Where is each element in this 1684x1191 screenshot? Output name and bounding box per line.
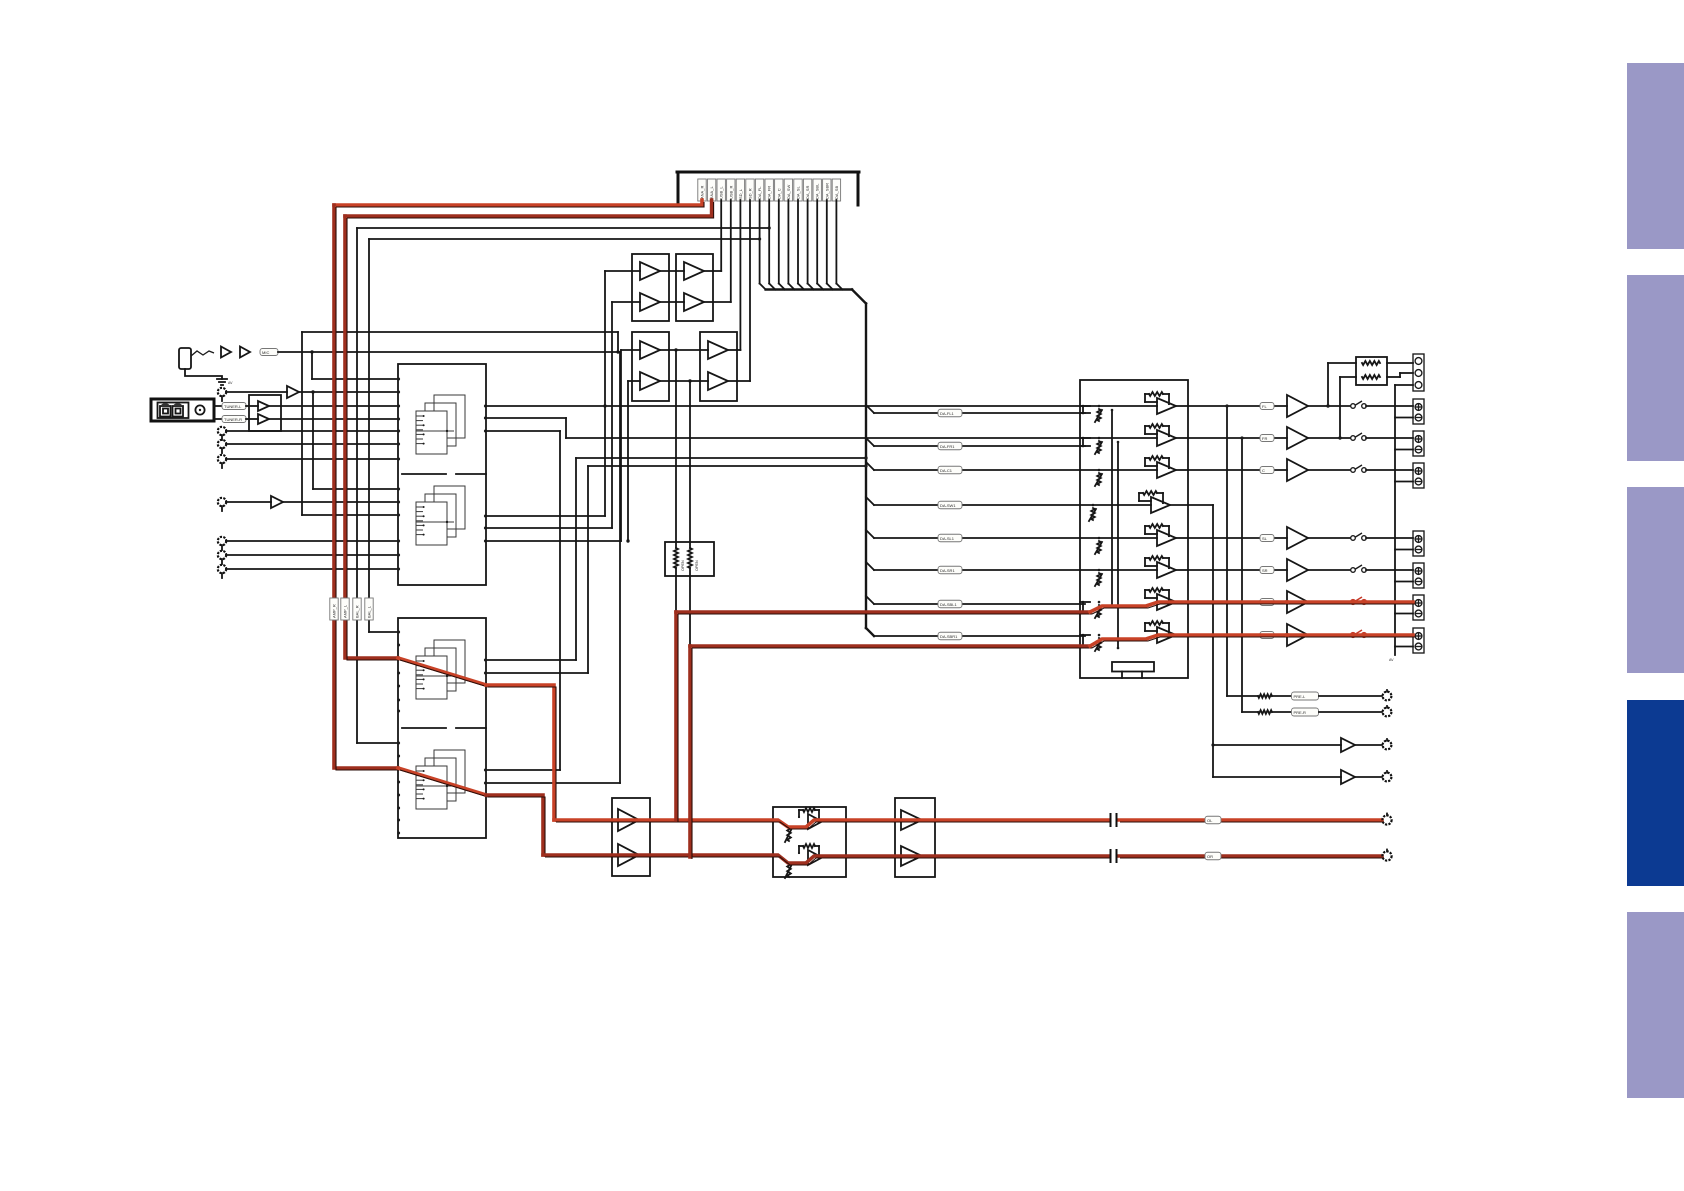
- svg-text:DA_FL: DA_FL: [757, 186, 762, 199]
- tuner buffer amp U2b: [258, 414, 269, 424]
- net label SBR: [1260, 632, 1274, 639]
- rec buffer amp U4a: [640, 341, 660, 359]
- IC2 input pin y795: [397, 794, 400, 797]
- tuner buffer amp U2a: [258, 401, 269, 411]
- power amp U10 FL: [1287, 395, 1308, 417]
- wire tuner R out: [214, 418, 222, 420]
- net label TUNER-L: [222, 403, 246, 410]
- open resistor box: [665, 542, 714, 576]
- net label FL: [1260, 403, 1274, 410]
- wire J3 to IC1: [226, 430, 398, 432]
- wire open1 to red corner: [675, 568, 677, 612]
- wire tuner R buffer out to IC1: [269, 418, 398, 420]
- IC2 input pin y673: [397, 672, 400, 675]
- headphone level cell U8a: [785, 808, 822, 842]
- IC1 output pin y541: [484, 540, 487, 543]
- svg-text:DA-SBL1: DA-SBL1: [940, 602, 957, 607]
- wire relay to terminal SL: [1366, 537, 1413, 539]
- wire ground trunk: [1395, 385, 1413, 655]
- red wire AMP-R after cap: [1118, 856, 1384, 858]
- net label SL: [1260, 535, 1274, 542]
- speaker terminal block TB7 SBR: [1413, 628, 1424, 653]
- red wire SBR into volume cell: [1090, 635, 1289, 648]
- IC1 input pin y431: [397, 430, 400, 433]
- IC1 section divider: [402, 473, 486, 475]
- wire tuner L out: [214, 405, 222, 407]
- speaker relay SW6 SBL: [1351, 597, 1367, 604]
- red wire SBL row: [676, 612, 1092, 614]
- red wire AMP-R main out row: [543, 855, 1111, 865]
- svg-text:USB_R: USB_R: [728, 186, 733, 199]
- wire amp to relay SR: [1308, 569, 1350, 571]
- IC1 output pin y418: [484, 417, 487, 420]
- antenna terminal block P1: [151, 399, 214, 421]
- zone buffer amp U20: [1341, 738, 1355, 752]
- IC2 input pin y782: [397, 781, 400, 784]
- main out buffer box U7: [612, 798, 650, 876]
- wire bus L6 to U4 output: [737, 200, 750, 381]
- IC1 output pin y528: [484, 527, 487, 530]
- wire U4a-U4c: [660, 348, 708, 351]
- red wire AMP-R inside IC2: [398, 768, 488, 797]
- IC2 output pin y660: [484, 659, 487, 662]
- net label SR: [1260, 567, 1274, 574]
- wire black column x369: [369, 239, 398, 632]
- wire IC1 out1 to volume row1: [486, 404, 1080, 407]
- bus net label USB_L: [717, 179, 725, 201]
- resistor R-PR: [1258, 710, 1272, 714]
- rca input jack J9: [218, 565, 226, 578]
- rec buffer box U4: [632, 332, 669, 401]
- IC2 input pin y632: [397, 631, 400, 634]
- volume input jumper y635: [1080, 634, 1090, 648]
- red wire SBL into volume cell: [1090, 602, 1289, 614]
- svg-text:SR: SR: [1262, 568, 1268, 573]
- wire J6 to IC1: [226, 501, 398, 503]
- wire IC2 outB up: [486, 464, 868, 673]
- wire label to jack PRE-R: [1319, 711, 1382, 713]
- svg-text:FL: FL: [1262, 404, 1267, 409]
- wire relay to terminal FL: [1366, 405, 1413, 407]
- power amp U16 SBR: [1287, 624, 1308, 646]
- sidebar tab 5: [1627, 912, 1684, 1098]
- net label PRE-L: [1292, 692, 1319, 700]
- svg-text:SL: SL: [1262, 536, 1268, 541]
- net label column BAL_L: [365, 598, 373, 620]
- rec buffer amp U4d: [708, 372, 728, 390]
- svg-text:DA-SBR1: DA-SBR1: [940, 634, 958, 639]
- wire IC1 out4 up to U3a: [486, 271, 640, 516]
- wire volume out row to amp FR: [1188, 437, 1287, 439]
- speaker terminal block TB2 FR: [1413, 431, 1424, 456]
- rca input jack J8: [218, 551, 226, 564]
- wire bus fan DA_SB: [836, 200, 842, 290]
- svg-text:OR: OR: [1207, 854, 1213, 859]
- svg-text:OPEN: OPEN: [695, 560, 699, 571]
- wire open2 to red corner: [689, 568, 691, 646]
- wire x676 down to open resistor: [675, 350, 677, 548]
- wire IC1 out3 down: [486, 431, 560, 770]
- IC1 input pin y406: [397, 405, 400, 408]
- IC1 selector matrix B: [416, 486, 465, 545]
- wire preout row R: [1242, 711, 1258, 713]
- red wire AMP-L left column: [345, 216, 400, 660]
- wire tuner L buffer out to IC1: [269, 405, 398, 407]
- rca input jack J5: [218, 455, 226, 468]
- IC2 input pin y686: [397, 685, 400, 688]
- buffer amp U6: [271, 496, 283, 508]
- ground GND1: [217, 379, 233, 385]
- sidebar tab 4: [1627, 700, 1684, 886]
- IC1 input pin y444: [397, 443, 400, 446]
- sidebar tab 1: [1627, 63, 1684, 249]
- IC2 input pin y700: [397, 699, 400, 702]
- zone jack J-Z2: [1383, 771, 1392, 781]
- IC1 input pin y419: [397, 418, 400, 421]
- svg-text:DA_SBR: DA_SBR: [824, 183, 829, 199]
- svg-text:TUNER-L: TUNER-L: [224, 404, 242, 409]
- svg-text:DA_FR: DA_FR: [767, 186, 772, 199]
- preout jack J-PR: [1383, 706, 1392, 716]
- bus net label DA_SL: [794, 179, 802, 201]
- wire IC1 out5 up to U3b: [486, 302, 640, 528]
- preout jack J-PL: [1383, 690, 1392, 700]
- headphone level cell U8b: [785, 844, 822, 878]
- wire trunk branch DA-C1: [866, 462, 1080, 474]
- wire U20 to jack: [1355, 744, 1382, 746]
- input selector IC1 box: [398, 364, 486, 585]
- volume IC3 config resistor: [1112, 662, 1154, 678]
- IC2 input pin y743: [397, 742, 400, 745]
- speaker relay SW5 SR: [1351, 565, 1367, 572]
- power input selector IC2 box: [398, 618, 486, 838]
- resistor R-OPEN-1: [674, 548, 685, 571]
- svg-text:SD_L: SD_L: [738, 188, 743, 199]
- wire bus fan DA_SBL: [817, 200, 823, 290]
- svg-text:BAL_R: BAL_R: [355, 605, 360, 618]
- wire amp FR to resistor box: [1338, 377, 1356, 440]
- net label MIC: [260, 349, 278, 356]
- svg-text:DA_C: DA_C: [776, 188, 781, 199]
- volume cell row 7: [1095, 588, 1176, 618]
- wire terminal ground SBL: [1395, 613, 1413, 615]
- wire U21 to jack: [1355, 776, 1382, 778]
- IC2 output pin y770: [484, 769, 487, 772]
- main out buffer amp U7a: [618, 809, 639, 831]
- wire mic jack sleeve to ground: [185, 369, 222, 379]
- svg-text:PRE-L: PRE-L: [1294, 694, 1307, 699]
- red wire AMP-R riser: [486, 795, 545, 857]
- mic buffer amp U1b: [240, 347, 250, 358]
- wire trunk branch DA-FR1: [866, 438, 1085, 450]
- wire amp to relay FL: [1308, 405, 1350, 407]
- wire resistor box to terminal: [1387, 363, 1413, 377]
- power amp U14 SR: [1287, 559, 1308, 581]
- wire terminal ground FR: [1395, 449, 1413, 451]
- svg-text:AV: AV: [1389, 658, 1394, 662]
- main out buffer amp U7b: [618, 844, 639, 866]
- svg-text:MIC: MIC: [262, 350, 269, 355]
- bus net label DA_SB: [832, 179, 840, 201]
- wire branch J2 column: [313, 392, 398, 489]
- wire label to jack PRE-L: [1319, 695, 1382, 697]
- wire U4c out: [728, 349, 737, 351]
- wire terminal ground C: [1395, 481, 1413, 483]
- zone jack J-Z1: [1383, 739, 1392, 749]
- speaker terminal block TB1 FL: [1413, 399, 1424, 424]
- IC1 input pin y502: [397, 501, 400, 504]
- wire volume out row to amp SR: [1188, 569, 1287, 571]
- red wire SBR row: [690, 646, 1092, 648]
- IC1 output pin y406: [484, 405, 487, 408]
- IC1 input pin y379: [397, 378, 400, 381]
- wire bus L7 vertical: [760, 200, 766, 290]
- wire preout R tap: [1240, 436, 1243, 712]
- net label column BAL_R: [353, 598, 361, 620]
- rca input jack J3: [218, 427, 226, 440]
- sidebar tab 3: [1627, 487, 1684, 673]
- net label column AMP_R: [330, 598, 338, 620]
- svg-text:DA_SL: DA_SL: [796, 186, 801, 199]
- net label FR: [1260, 435, 1274, 442]
- wire R-PR to label: [1272, 711, 1291, 713]
- IC2 output pin y783: [484, 782, 487, 785]
- IC2 input pin y711: [397, 710, 400, 713]
- IC1 output pin y431: [484, 430, 487, 433]
- IC1 input pin y541: [397, 540, 400, 543]
- wire trunk branch DA-SBL1: [866, 596, 1085, 608]
- wire branch to U4b: [628, 381, 640, 541]
- bus net label SD_R: [746, 179, 754, 201]
- wire terminal ground SL: [1395, 549, 1413, 551]
- wire U3b-U3d: [660, 301, 684, 303]
- wire U4b-U4d: [660, 379, 708, 382]
- svg-text:DA-SW1: DA-SW1: [940, 503, 956, 508]
- svg-text:ANA_R: ANA_R: [700, 186, 705, 199]
- svg-text:BAL_L: BAL_L: [367, 605, 372, 618]
- wire trunk branch DA-SR1: [866, 562, 1080, 574]
- net label SBL: [1260, 599, 1274, 606]
- red wire AMP-L inside IC2: [398, 658, 488, 687]
- antenna terminal pin 1: [160, 403, 171, 416]
- wire trunk branch DA-SBR1: [874, 632, 1085, 640]
- wire J9 to IC1: [226, 568, 398, 570]
- IC2 input pin y768: [397, 767, 400, 770]
- net label PRE-R: [1292, 708, 1319, 716]
- rec buffer amp U3a: [640, 262, 660, 280]
- rec buffer amp U3b: [640, 293, 660, 311]
- svg-text:TUNER-R: TUNER-R: [224, 417, 242, 422]
- wire R-PL to label: [1272, 695, 1291, 697]
- sidebar tab 2: [1627, 275, 1684, 461]
- mic buffer amp U1a: [221, 347, 231, 358]
- main out jack J-ML: [1382, 814, 1391, 825]
- net label MAIN-R: [1205, 852, 1221, 860]
- wire J8 to IC1: [226, 554, 398, 556]
- red wire SBL branch down: [676, 612, 678, 822]
- bus net label DA_SBL: [813, 179, 821, 201]
- red wire AMP-R left column: [334, 205, 400, 770]
- volume cell row 2: [1080, 424, 1188, 454]
- IC2 input pin y645: [397, 644, 400, 647]
- main out buffer amp U9a: [901, 810, 922, 830]
- bus net label DA_SR: [803, 179, 811, 201]
- wire amp FL to resistor box: [1326, 363, 1356, 408]
- wire black column x357: [357, 228, 398, 743]
- wire terminal ground SR: [1395, 581, 1413, 583]
- IC1 input pin y515: [397, 514, 400, 517]
- bus net label DA_FR: [765, 179, 773, 201]
- wire preout L tap: [1225, 404, 1228, 696]
- net label TUNER-R: [222, 416, 246, 423]
- svg-text:DA-FL1: DA-FL1: [940, 411, 955, 416]
- speaker terminal block TB5 SR: [1413, 563, 1424, 588]
- resistor R-PL: [1258, 694, 1272, 698]
- red wire AMP-L main out row: [554, 820, 1111, 829]
- wire trunk branch DA-FL1: [866, 405, 1085, 417]
- svg-text:DA-C1: DA-C1: [940, 468, 953, 473]
- rca input jack J7: [218, 537, 226, 550]
- bus net label DA_SBR: [823, 179, 831, 201]
- wire zone tap: [1211, 505, 1214, 777]
- wire zone row 1: [1188, 504, 1213, 506]
- svg-text:OPEN: OPEN: [681, 560, 685, 571]
- volume cell row 4: [1080, 491, 1188, 521]
- wire trunk branch DA-SL1: [866, 530, 1080, 542]
- volume input jumper y406: [1080, 405, 1090, 415]
- IC2 section divider: [402, 727, 486, 729]
- bus net label SD_L: [736, 179, 744, 201]
- wire volume out row to amp SL: [1188, 537, 1287, 539]
- wire J5 to IC1: [226, 458, 398, 460]
- volume cell row 1: [1080, 392, 1188, 422]
- wire tuner R to buffer: [246, 418, 258, 420]
- volume cell row 5: [1080, 524, 1188, 554]
- IC2 input pin y820: [397, 819, 400, 822]
- IC2 selector matrix B: [416, 750, 465, 809]
- volume cell row 8: [1095, 621, 1176, 651]
- rca input jack J6: [218, 498, 226, 511]
- ground net label AV: [1389, 658, 1394, 662]
- speaker relay SW1 FL: [1351, 401, 1367, 408]
- svg-text:SD_R: SD_R: [748, 188, 753, 199]
- mic jack J1: [179, 348, 191, 369]
- svg-text:USB_L: USB_L: [719, 186, 724, 199]
- bus net label DA_FL: [755, 179, 763, 201]
- mic jack switch contact: [191, 351, 214, 356]
- wire bus fan DA_SR: [808, 200, 814, 290]
- svg-text:DA_SR: DA_SR: [805, 186, 810, 199]
- wire fan collector: [766, 290, 866, 304]
- red wire AMP-L after cap: [1118, 820, 1384, 822]
- bus backbone thick line: [677, 172, 859, 205]
- svg-text:C: C: [1262, 468, 1265, 473]
- antenna coax connector: [195, 405, 204, 414]
- wire mic branch down to IC1: [312, 352, 398, 379]
- rec buffer box U3: [632, 254, 669, 321]
- bus net label USB_R: [727, 179, 735, 201]
- wire bus L8 vertical: [769, 200, 775, 290]
- svg-text:ANA_L: ANA_L: [709, 186, 714, 199]
- wire volume out row to amp FL: [1188, 405, 1287, 407]
- wire mic to mixer: [278, 350, 620, 353]
- wire preout row L: [1227, 695, 1258, 697]
- IC2 input pin y658: [397, 657, 400, 660]
- IC1 input pin y459: [397, 458, 400, 461]
- net label C: [1260, 467, 1274, 474]
- wire U4d out: [728, 380, 737, 382]
- IC1 input pin y392: [397, 391, 400, 394]
- rec buffer box U4B: [700, 332, 737, 401]
- volume cell row 3: [1080, 456, 1188, 486]
- wire loop x618 join: [617, 332, 619, 352]
- resistor R-Z2: [1362, 375, 1380, 379]
- rec buffer amp U4c: [708, 341, 728, 359]
- volume cell row 6: [1080, 556, 1188, 586]
- wire relay to terminal SR: [1366, 569, 1413, 571]
- speaker terminal block TB3 C: [1413, 463, 1424, 488]
- volume input jumper y602: [1080, 601, 1090, 614]
- speaker terminal block TB6 SBL: [1413, 595, 1424, 620]
- red wire AMP-R top segment: [334, 200, 704, 207]
- IC1 selector matrix A: [416, 395, 465, 454]
- IC2 input pin y808: [397, 807, 400, 810]
- zone buffer amp U21: [1341, 770, 1355, 784]
- svg-text:DA-SL1: DA-SL1: [940, 536, 955, 541]
- IC1 output pin y516: [484, 515, 487, 518]
- red wire SBR branch down: [690, 646, 692, 859]
- antenna terminal pin 2: [173, 403, 184, 416]
- speaker relay SW4 SL: [1351, 533, 1367, 540]
- wire amp to relay C: [1308, 469, 1350, 471]
- main out jack J-MR: [1382, 850, 1391, 861]
- wire zone out 1: [1213, 744, 1341, 746]
- IC1 input pin y555: [397, 554, 400, 557]
- wire trunk branch DA-SW1: [866, 497, 1080, 509]
- resistor R-Z1: [1362, 361, 1380, 365]
- wire bus fan DA_SW: [788, 200, 794, 290]
- wire J2 to IC1: [226, 390, 398, 393]
- capacitor C1: [1111, 813, 1117, 827]
- wire U3a-U3c: [660, 270, 684, 272]
- svg-text:DA_SB: DA_SB: [834, 186, 839, 199]
- wire bus L7 tee to left column: [369, 237, 761, 240]
- IC1 input pin y489: [397, 488, 400, 491]
- power amp U11 FR: [1287, 427, 1308, 449]
- bus net label ANA_R: [698, 179, 706, 201]
- wire J4 to IC1: [226, 443, 398, 445]
- capacitor C2: [1111, 849, 1117, 863]
- IC2 input pin y833: [397, 832, 400, 835]
- IC2 selector matrix A: [416, 640, 465, 699]
- wire amp to relay FR: [1308, 437, 1350, 439]
- IC2 input pin y756: [397, 755, 400, 758]
- net label MAIN-L: [1205, 816, 1221, 824]
- svg-text:OL: OL: [1207, 818, 1213, 823]
- power amp U13 SL: [1287, 527, 1308, 549]
- wire tuner L to buffer: [246, 405, 258, 407]
- wire bus L4 to U3 output: [713, 200, 731, 302]
- wire U3c out: [704, 270, 713, 272]
- rec buffer amp U3c: [684, 262, 704, 280]
- tuner buffer box U2: [249, 395, 281, 431]
- volume input jumper y438: [1080, 437, 1090, 448]
- svg-text:AMP_L: AMP_L: [343, 604, 348, 618]
- bus net label DA_SW: [784, 179, 792, 201]
- wire x690 down to open resistor: [689, 381, 691, 548]
- svg-text:PRE-R: PRE-R: [1294, 710, 1307, 715]
- wire IC1 out2 jog: [486, 418, 566, 438]
